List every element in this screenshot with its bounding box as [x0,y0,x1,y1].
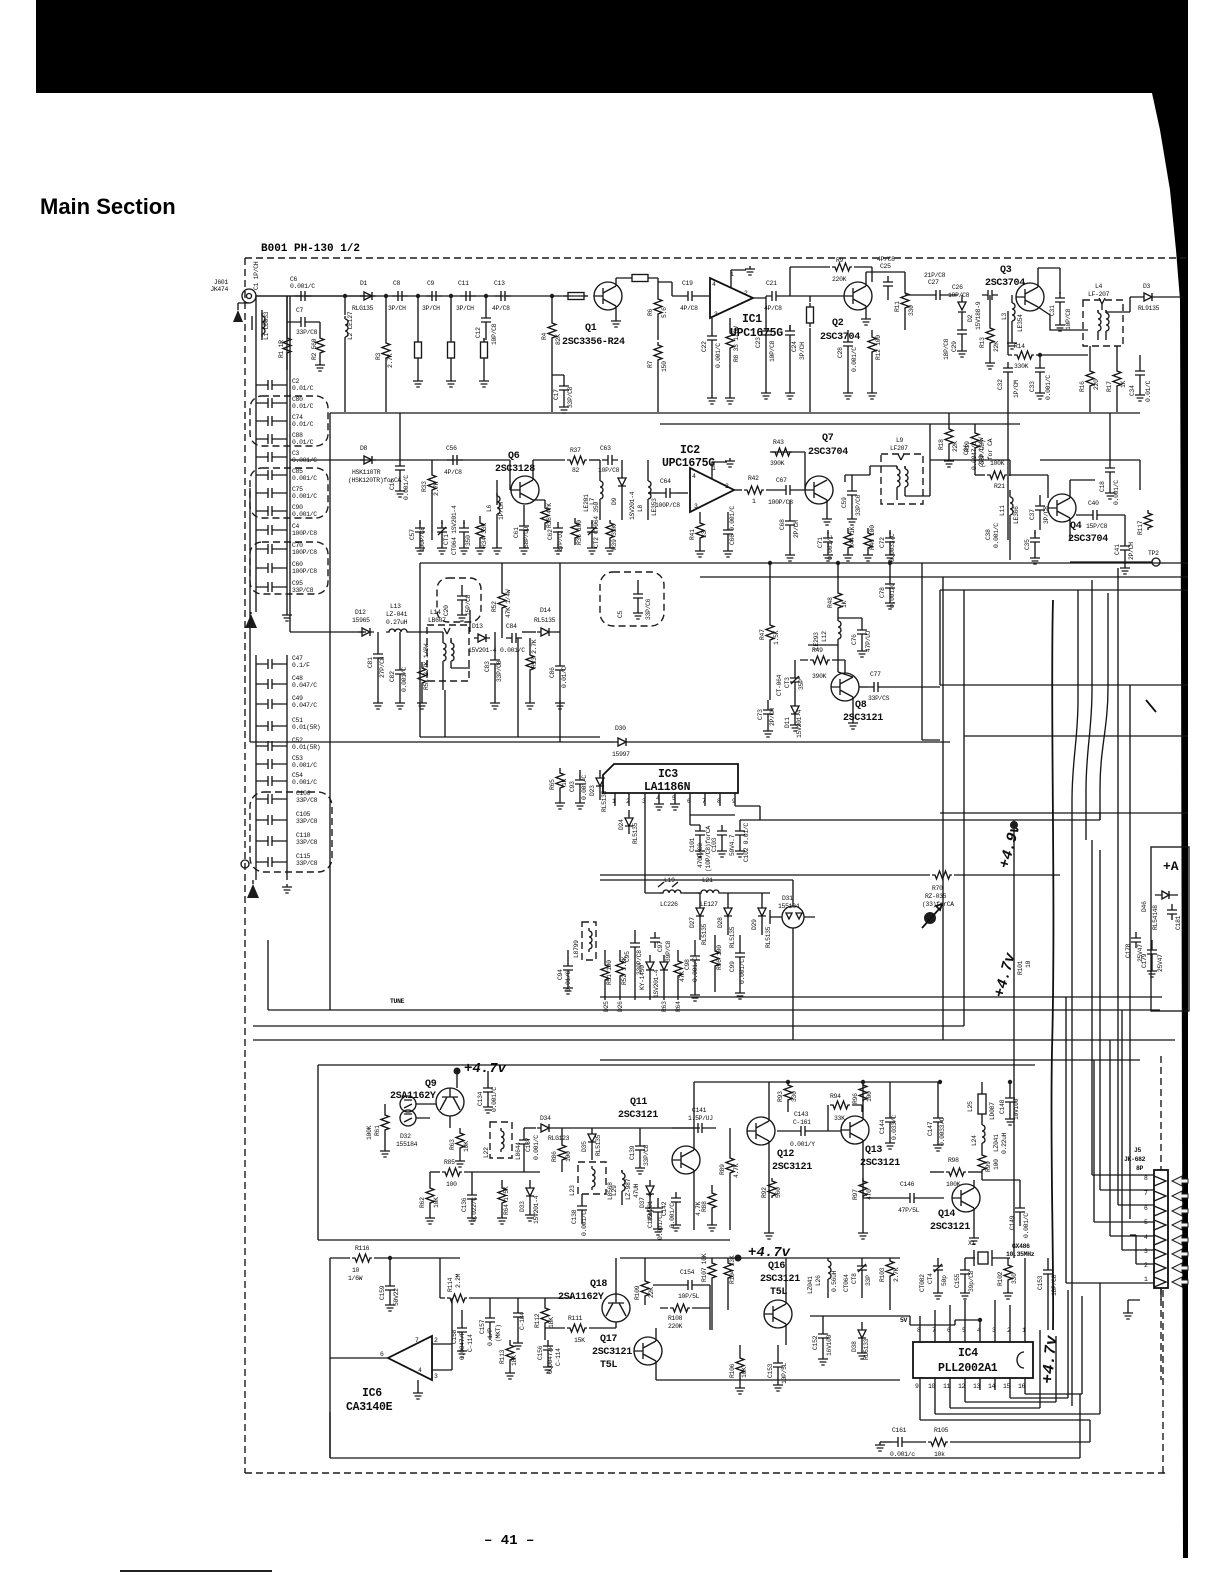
svg-text:15V188-9: 15V188-9 [975,301,982,330]
svg-text:D46: D46 [1141,901,1148,912]
svg-text:R116: R116 [355,1245,370,1252]
svg-text:R1 1R: R1 1R [278,340,285,358]
C101 cluster under pin6 [690,815,735,825]
svg-text:C61: C61 [513,527,520,538]
L12 LE293 [838,618,841,642]
svg-text:D1: D1 [360,280,368,287]
diode D12 [358,628,374,636]
svg-text:CT064: CT064 [843,1274,850,1292]
svg-text:16: 16 [1018,1383,1026,1390]
+4.7v handwriting vertical [1039,1334,1061,1385]
svg-text:C152: C152 [812,1335,819,1350]
svg-text:C2: C2 [292,378,300,385]
svg-text:5V: 5V [900,1317,908,1324]
svg-text:3: 3 [694,503,698,510]
svg-text:10: 10 [1025,960,1032,968]
svg-text:0.01/C: 0.01/C [565,970,572,992]
capacitor C110 [262,836,278,846]
svg-text:+4.7v: +4.7v [1039,1334,1061,1385]
svg-text:CA3140E: CA3140E [346,1401,393,1414]
5V wire to pin4 [955,1320,980,1334]
svg-text:CT3: CT3 [784,677,791,688]
svg-text:C23: C23 [755,337,762,348]
svg-text:R36 100: R36 100 [576,520,583,545]
svg-text:4: 4 [712,281,716,288]
transistor Q14 [952,1184,980,1212]
schematic dashed border [245,258,1186,1473]
bus y=1060 [600,1059,1140,1061]
svg-text:1K: 1K [1120,380,1127,388]
svg-text:C63: C63 [600,445,611,452]
svg-text:C137: C137 [525,1137,532,1152]
svg-text:R17: R17 [1106,381,1113,392]
svg-text:0.001/C: 0.001/C [1023,1213,1030,1238]
svg-text:35P: 35P [798,679,805,690]
R94 33K [827,1105,829,1131]
ground R2 [315,362,325,371]
svg-text:100P/C8: 100P/C8 [292,568,317,575]
resistor R16 220 [1086,368,1094,388]
svg-text:2SC3356-R24: 2SC3356-R24 [562,337,625,348]
variable resistor symbol [924,912,936,924]
bottom rule line [120,1570,272,1572]
svg-text:220K: 220K [668,1323,683,1330]
diode D3 [1106,297,1140,312]
right vertical nest [942,577,944,1040]
inductor L1 LD033 [252,310,262,340]
svg-text:C6: C6 [290,276,298,283]
resistor box T3 [481,338,488,362]
svg-text:JK474: JK474 [210,286,228,293]
svg-text:100P/C8: 100P/C8 [292,530,317,537]
svg-text:C38: C38 [985,529,992,540]
svg-text:C19: C19 [682,280,693,287]
R63b 10K [456,1130,464,1150]
svg-text:C66 0.001/C: C66 0.001/C [729,506,736,545]
svg-text:RL5135: RL5135 [701,923,708,945]
resistor box T2 [448,338,455,362]
svg-text:0.001/C: 0.001/C [292,779,317,786]
svg-text:2: 2 [725,483,729,490]
svg-text:R99: R99 [985,1161,992,1172]
C18 0.001/C on bus right [1109,413,1111,462]
svg-text:R96: R96 [852,1093,859,1104]
inductor L2 LE127 [344,296,346,315]
svg-text:0.001/C: 0.001/C [292,511,317,518]
transistor Q18 [602,1294,630,1322]
bus y=1258 [620,1257,900,1259]
svg-text:Q14: Q14 [938,1209,955,1220]
bus wire y=413 [330,412,1140,414]
svg-text:3P/CH: 3P/CH [799,342,806,360]
L8799 dashed coil [582,922,596,960]
IC2 out to Q7 line continuation to right [930,460,1010,476]
C139 33P/C8 [635,1140,645,1156]
svg-text:100P/C8: 100P/C8 [655,502,680,509]
svg-text:C153: C153 [1037,1275,1044,1290]
svg-text:3: 3 [714,311,718,318]
capacitor C6 [295,291,311,301]
svg-text:R41: R41 [689,529,696,540]
coil L13 [386,629,410,632]
svg-text:C7: C7 [296,307,304,314]
svg-text:0.001/C: 0.001/C [292,762,317,769]
L11 LE366 coil [1009,490,1011,494]
svg-text:6: 6 [1144,1205,1148,1212]
C142b 0.001/C [671,1192,681,1208]
C16 0.001/C on bus [399,413,401,460]
svg-text:UPC1675G: UPC1675G [662,457,715,470]
svg-text:R70: R70 [932,885,943,892]
svg-text:330: 330 [1011,1273,1018,1284]
svg-text:Q13: Q13 [865,1145,882,1156]
svg-text:C8: C8 [393,280,401,287]
svg-text:C53: C53 [292,755,303,762]
svg-text:100: 100 [446,1181,457,1188]
board label [261,243,360,255]
svg-text:0.01/C: 0.01/C [292,439,314,446]
svg-text:C146: C146 [900,1181,915,1188]
R66 100 [711,948,719,968]
svg-text:1SV201-4: 1SV201-4 [629,491,636,520]
svg-text:0.001/C: 0.001/C [403,475,410,500]
svg-text:R112: R112 [534,1313,541,1328]
svg-text:+4.9v: +4.9v [996,821,1024,870]
C158 0.0047/P C-114 [457,1322,467,1338]
svg-text:D29: D29 [751,919,758,930]
svg-text:C154: C154 [680,1269,695,1276]
svg-text:L24: L24 [971,1135,978,1146]
svg-text:22K: 22K [952,441,959,452]
transistor Q17 [634,1337,662,1365]
svg-text:R48: R48 [827,597,834,608]
svg-text:R33: R33 [421,481,428,492]
R116 10 1/6W [330,1257,350,1259]
svg-text:1: 1 [612,798,616,805]
svg-text:T5L: T5L [600,1360,617,1371]
TP2 test point [1070,561,1152,563]
svg-text:R34 33K: R34 33K [481,523,488,548]
svg-text:0.0033/C: 0.0033/C [889,533,896,562]
transformer L4 LF-207 dashed box [1083,300,1123,346]
svg-text:C1 1P/CH: C1 1P/CH [253,261,260,290]
svg-text:C24: C24 [791,341,798,352]
capacitor C115 [262,857,278,867]
R62 3.3K [616,958,624,978]
C41 2P/CH vertical [1124,515,1126,540]
svg-text:100: 100 [565,1151,572,1162]
bus y=1040 [253,1039,1175,1041]
svg-text:2SC3121: 2SC3121 [618,1110,658,1121]
capacitor C19 [682,291,698,301]
left pins parts: R65 1K [556,770,564,790]
L29 LZ-987 47UH [622,1170,625,1194]
svg-text:33P/CS: 33P/CS [868,695,890,702]
svg-text:1: 1 [1144,1276,1148,1283]
svg-text:C94: C94 [557,969,564,980]
svg-text:C139: C139 [629,1145,636,1160]
resistor R9 220K top [790,267,830,296]
capacitor C56 [447,455,463,465]
svg-text:R44 1K: R44 1K [849,526,856,548]
svg-text:C142: C142 [647,1213,654,1228]
wires right of IC2 going to R19 area [1040,460,1140,490]
C20 dashed box [437,578,481,622]
svg-text:2SC3704: 2SC3704 [808,447,848,458]
R93 330 [784,1082,792,1102]
svg-text:Q3: Q3 [1000,265,1012,276]
svg-text:L12: L12 [821,631,828,642]
C-184 cap [513,1307,523,1323]
svg-text:C136: C136 [461,1197,468,1212]
svg-text:0.047/C: 0.047/C [292,702,317,709]
svg-text:LC226: LC226 [660,901,678,908]
svg-text:C75: C75 [292,486,303,493]
svg-text:6: 6 [687,798,691,805]
svg-text:RL5135: RL5135 [601,790,608,812]
transistor Q6 [511,476,539,504]
resistor R37 82 [533,460,565,480]
svg-text:33P/C8: 33P/C8 [296,839,318,846]
svg-text:Q1: Q1 [585,323,597,334]
svg-text:C4: C4 [292,523,300,530]
svg-text:22K: 22K [648,1287,655,1298]
svg-text:for CA: for CA [987,438,994,460]
svg-text:R114: R114 [447,1277,454,1292]
svg-text:4: 4 [692,473,696,480]
trimmer CT1 [437,522,447,538]
resistor R38 47K [533,500,545,505]
D11 15V201-4 [791,700,799,722]
wires above +A [940,812,1188,814]
capacitor C90 [262,506,278,516]
svg-text:C35: C35 [1024,539,1031,550]
svg-text:D24: D24 [618,819,625,830]
svg-text:R107 10K: R107 10K [701,1253,708,1282]
svg-text:0.001/C: 0.001/C [889,583,896,608]
svg-text:R51 2.7K 1/6W: R51 2.7K 1/6W [423,644,430,690]
capacitor C23 [765,296,767,325]
D27 vertical [696,893,704,940]
IC3 body [603,764,738,793]
svg-text:D30: D30 [615,725,626,732]
D38 RLS133 [858,1322,866,1350]
svg-text:PLL2002A1: PLL2002A1 [938,1362,998,1375]
wire staircase to J5 risers [1010,1290,1082,1398]
svg-text:C93: C93 [569,781,576,792]
svg-text:15P/C8: 15P/C8 [1086,523,1108,530]
capacitor C24 [785,325,795,341]
second rail [256,655,287,880]
svg-text:R7: R7 [647,360,654,368]
R98 100K [930,1171,944,1173]
pin4/5 grounds [654,801,664,810]
C103 [717,825,727,841]
svg-text:0.001/C: 0.001/C [657,1215,664,1240]
svg-text:6: 6 [380,1351,384,1358]
C96 330P/C8 [630,937,640,953]
resistor R1 [283,335,291,355]
svg-text:100: 100 [993,1159,1000,1170]
svg-text:C20: C20 [443,605,450,616]
R109 22K diag [641,1278,649,1298]
svg-text:0.033/C: 0.033/C [891,1115,898,1140]
coil L6 [496,480,498,505]
capacitor C62 [553,522,563,538]
svg-text:(MKT): (MKT) [495,1324,502,1342]
svg-text:18K: 18K [511,1355,518,1366]
svg-text:R111: R111 [568,1315,583,1322]
svg-text:0.56uH: 0.56uH [831,1270,838,1292]
C156 0.0047/P C-114 [543,1340,553,1356]
R61 100K [381,1112,389,1132]
ground under connector [1160,1288,1162,1300]
diode D2 15V188-9 vertical [958,295,966,320]
CT8 CT064 33P [857,1260,867,1276]
CT3 CT-064 35P [790,672,800,688]
svg-text:C97: C97 [657,941,664,952]
svg-text:33P/C8: 33P/C8 [296,797,318,804]
svg-text:0.001/C: 0.001/C [292,475,317,482]
svg-text:0.01/C: 0.01/C [561,666,568,688]
bottom pins [920,1378,1025,1390]
svg-text:Q2: Q2 [832,318,844,329]
capacitor C47 [262,659,278,669]
svg-text:3: 3 [642,798,646,805]
resistor R43 390K [770,452,805,490]
svg-text:0.001/C: 0.001/C [993,523,1000,548]
svg-text:R2 560: R2 560 [311,338,318,360]
D34 RLG123 [524,1127,536,1129]
C61b 27P/C8 [377,632,379,648]
svg-text:LZ-041: LZ-041 [386,611,408,618]
resistor R12 100 [868,334,876,354]
op-amp IC6 (points left) [388,1336,432,1380]
svg-text:R108: R108 [668,1315,683,1322]
svg-text:100K: 100K [990,460,1005,467]
connector body [1154,1170,1168,1288]
svg-text:Q16: Q16 [768,1261,785,1272]
svg-text:7: 7 [1144,1190,1148,1197]
svg-text:L22: L22 [483,1147,490,1158]
svg-text:C33: C33 [1029,381,1036,392]
svg-text:2SA1162Y: 2SA1162Y [558,1292,604,1303]
svg-text:1.5P/UJ: 1.5P/UJ [688,1115,713,1122]
svg-text:10K: 10K [741,1367,748,1378]
svg-text:R39 33K: R39 33K [611,525,618,550]
resistor R21 100K [975,474,985,476]
svg-text:R47: R47 [759,629,766,640]
svg-text:+4.7v: +4.7v [464,1061,507,1077]
svg-text:D3: D3 [1143,283,1151,290]
svg-text:7: 7 [702,798,706,805]
svg-text:C88: C88 [292,432,303,439]
svg-text:21P/C8: 21P/C8 [924,272,946,279]
coil L8 LE353 [647,460,649,478]
svg-text:R37: R37 [570,447,581,454]
IC3 pins [615,793,735,815]
op-amp IC2 [690,468,734,512]
svg-text:0.001/c: 0.001/c [890,1451,915,1458]
capacitor C53 [262,759,278,769]
svg-text:C77: C77 [870,671,881,678]
svg-text:R42: R42 [748,475,759,482]
resistor R14 330K row [1008,311,1012,355]
bottom long wires [330,1394,1080,1458]
svg-text:0.01/C: 0.01/C [292,421,314,428]
R117 [1144,510,1152,530]
svg-text:(HSK120TR)forCA: (HSK120TR)forCA [348,477,401,484]
C146 47P/5L [904,1193,920,1203]
capacitor C61 [519,520,529,536]
C136 0.022/C [467,1189,477,1205]
svg-text:3P/CH: 3P/CH [422,305,440,312]
1SV201-4 diode [660,955,668,1000]
R61b 100 [601,962,609,982]
svg-text:100P/C8: 100P/C8 [419,527,426,552]
R114 2.2M [440,1258,445,1298]
svg-text:33P/C8: 33P/C8 [296,860,318,867]
svg-text:IC2: IC2 [680,444,700,457]
svg-text:R85: R85 [444,1159,455,1166]
+4.7v R101 handwriting right [991,950,1019,999]
svg-text:C17: C17 [553,389,560,400]
svg-text:33P: 33P [865,1275,872,1286]
svg-text:5: 5 [672,795,676,802]
C152 16V100 [818,1328,828,1344]
svg-text:15K: 15K [574,1337,585,1344]
op-amp IC1 [710,278,753,318]
svg-text:RL5135: RL5135 [534,617,556,624]
bus wire y=424 [660,423,1020,425]
svg-text:RL54148: RL54148 [1152,905,1159,930]
svg-text:4.7K: 4.7K [733,1163,740,1178]
svg-text:R97: R97 [852,1189,859,1200]
transistor Q9 [436,1088,464,1116]
svg-text:220 1/4W: 220 1/4W [978,437,985,466]
svg-text:390K: 390K [770,460,785,467]
C77 33P/CS [859,686,868,688]
svg-text:R9: R9 [836,257,844,264]
svg-text:560: 560 [775,1187,782,1198]
R64b 1.5K [498,1185,506,1205]
svg-text:155184: 155184 [778,903,800,910]
R102 330 [1004,1262,1012,1282]
C137 0.001/C [519,1134,529,1150]
C5 dashed box [600,572,664,626]
svg-text:3: 3 [1144,1248,1148,1255]
R96 100 [859,1082,867,1102]
svg-text:33P/C6: 33P/C6 [645,598,652,620]
svg-text:R63: R63 [449,1139,456,1150]
svg-text:C18: C18 [1099,481,1106,492]
svg-text:2.7K: 2.7K [387,353,394,368]
svg-text:9: 9 [915,1383,919,1390]
resistor R19 220 1/4W [971,430,979,450]
svg-text:D13: D13 [472,623,483,630]
svg-text:C-114: C-114 [467,1334,474,1352]
svg-text:27P/C8: 27P/C8 [379,656,386,678]
svg-text:33P/C6: 33P/C6 [855,494,862,516]
svg-text:R13: R13 [979,337,986,348]
svg-text:C110: C110 [296,832,311,839]
resistor R13 22K [986,325,994,345]
block outline wires [318,1065,1035,1240]
svg-text:4: 4 [656,795,660,802]
svg-text:C74: C74 [292,414,303,421]
R111 15K [545,1327,565,1329]
resistor R7 150 [654,342,662,362]
